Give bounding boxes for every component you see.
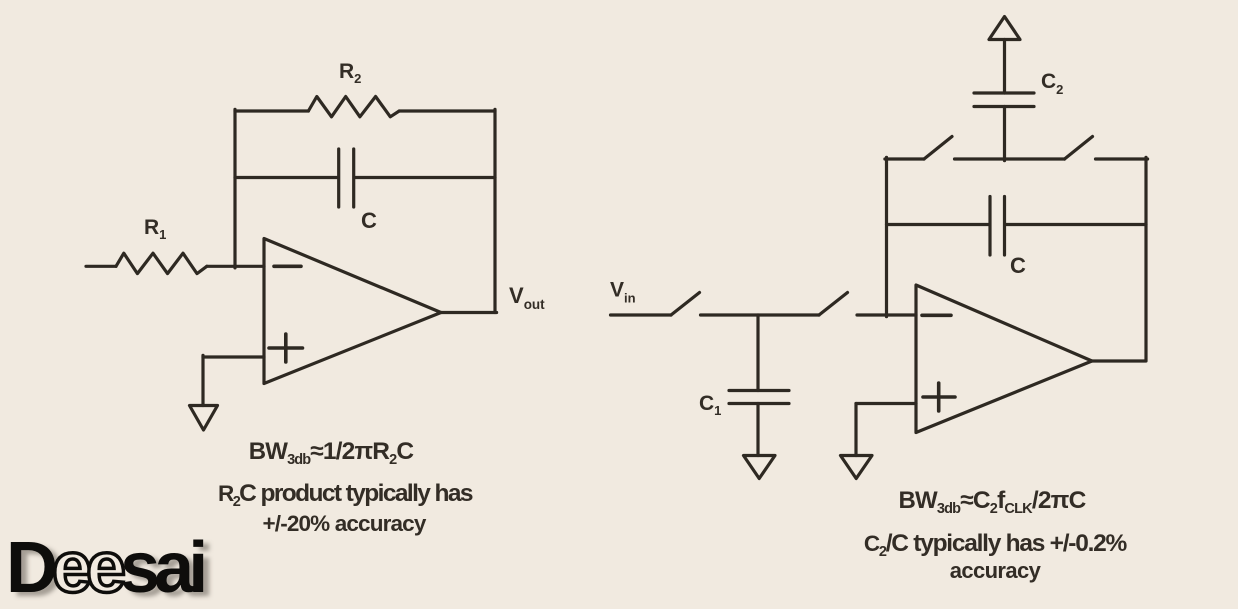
svg-text:R1: R1 (144, 216, 166, 242)
wire feedback left vertical (233, 109, 236, 268)
wire to ground (right op-amp) (854, 404, 857, 456)
op-amp U1 plus sign (269, 334, 303, 362)
wire feedback box right vertical (1144, 157, 1147, 360)
wire to op-amp inverting input (right) (857, 313, 916, 316)
switch S4 (819, 293, 848, 316)
svg-text:R2C product typically has: R2C product typically has (218, 480, 473, 510)
wire C branch right (355, 176, 495, 179)
wire R2 branch left (235, 109, 308, 112)
wire C branch right (right circuit) (1006, 223, 1146, 226)
switch S1 (924, 137, 952, 160)
op-amp U2 (916, 285, 1092, 433)
wire Vin (611, 313, 672, 316)
svg-text:C: C (361, 208, 377, 233)
ground (left op-amp) (190, 406, 218, 431)
wire C1 top vertical (756, 315, 759, 391)
wire S3 to S4 (701, 313, 820, 316)
op-amp U2 minus sign (922, 313, 951, 317)
svg-text:C1: C1 (699, 392, 721, 418)
wire R1 to op-amp inverting input (207, 265, 264, 268)
svg-text:BW3db≈C2fCLK/2πC: BW3db≈C2fCLK/2πC (898, 487, 1086, 517)
capacitor C1 plates (729, 391, 789, 404)
wire feedback right vertical (493, 109, 496, 312)
capacitor C plates (right circuit) (990, 197, 1005, 256)
svg-text:accuracy: accuracy (950, 558, 1042, 583)
wire C branch left (235, 176, 337, 179)
wire op-amp non-inverting input (right) (856, 402, 916, 405)
switch S2 (1065, 137, 1093, 160)
resistor R2 (308, 97, 399, 117)
wire C1 to ground (756, 404, 759, 456)
capacitor C plates (339, 149, 354, 207)
wire switch branch right (1096, 157, 1148, 160)
op-amp U1 (264, 239, 441, 384)
wire switch branch left (885, 157, 924, 160)
ground (C1) (744, 456, 776, 479)
svg-text:Vout: Vout (509, 283, 545, 312)
wire C2 to switch branch (1003, 107, 1006, 161)
Deesai logo (6, 527, 202, 609)
svg-text:C2/C typically has +/-0.2%: C2/C typically has +/-0.2% (864, 530, 1128, 560)
op-amp U1 minus sign (274, 264, 301, 268)
wire op-amp non-inverting input (203, 355, 264, 358)
power arrow (up) (989, 17, 1020, 40)
svg-text:C: C (1010, 253, 1026, 278)
op-amp U2 plus sign (923, 383, 955, 411)
wire between switches (955, 157, 1065, 160)
ground (right op-amp) (841, 456, 873, 479)
svg-text:C2: C2 (1041, 70, 1063, 97)
wire output (right) (1092, 359, 1146, 362)
wire feedback box left vertical (885, 157, 888, 316)
wire input to R1 (86, 265, 116, 268)
capacitor C2 plates (974, 93, 1034, 107)
wire arrow to C2 (1003, 40, 1006, 94)
svg-text:BW3db≈1/2πR2C: BW3db≈1/2πR2C (249, 438, 415, 468)
wire R2 branch right (399, 109, 495, 112)
wire to left ground (201, 355, 204, 405)
svg-text:Vin: Vin (610, 279, 636, 306)
switch S3 (671, 293, 700, 316)
svg-text:R2: R2 (339, 60, 361, 86)
svg-text:+/-20% accuracy: +/-20% accuracy (263, 511, 427, 536)
resistor R1 (116, 253, 207, 273)
wire C branch left (right circuit) (887, 223, 989, 226)
wire output Vout (441, 311, 497, 314)
